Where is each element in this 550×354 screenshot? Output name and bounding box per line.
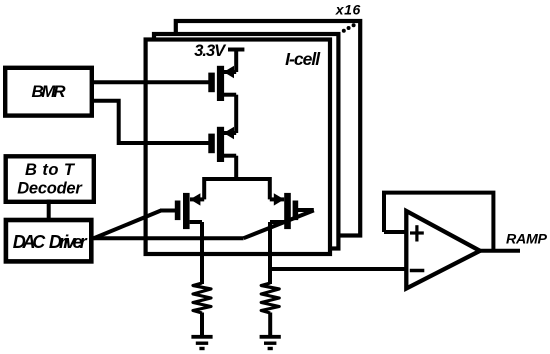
transistor M3 (left NMOS of pair): [175, 193, 204, 229]
feedback wire from op-amp + input to output: [384, 193, 493, 251]
op-amp + input sign: [410, 225, 424, 241]
wire R2 to ground: [268, 313, 272, 336]
wire M1 drain to M2 source: [234, 95, 238, 133]
svg-text:BMR: BMR: [32, 82, 67, 101]
wire 3.3V to M1 source: [234, 50, 238, 73]
svg-text:DAC: DAC: [13, 232, 47, 252]
transistor M4 (right NMOS of pair): [270, 193, 298, 229]
wire M2 drain to diff-pair bar: [234, 156, 238, 179]
wire decoder to DAC driver: [47, 200, 51, 223]
block B to T Decoder: [6, 156, 94, 202]
block DAC Driver: [6, 220, 91, 261]
I-cell box (front): [146, 40, 330, 255]
wire M4 gate lead: [298, 208, 314, 212]
wire to op-amp + input: [384, 230, 406, 234]
wire BMR to M2 gate: [92, 101, 209, 143]
ellipsis dots between stacked boxes: [342, 23, 356, 33]
op-amp - input sign: [410, 269, 425, 273]
svg-text:3.3V: 3.3V: [194, 42, 227, 60]
block BMR: [5, 68, 92, 116]
3.3V supply bar: [228, 48, 244, 52]
svg-text:x16: x16: [335, 1, 361, 17]
op-amp U1: [406, 211, 480, 289]
wire M3 source down to R1: [200, 222, 204, 284]
wire M4 source down to R2: [268, 222, 272, 284]
wire op-amp output RAMP: [478, 249, 520, 253]
ground (left): [191, 335, 212, 350]
svg-text:RAMP: RAMP: [506, 232, 548, 248]
wire DAC driver to M3 gate (diagonal): [94, 211, 162, 239]
svg-text:I-cell: I-cell: [285, 49, 321, 69]
wire M3 gate lead: [160, 209, 176, 213]
resistor R1: [193, 283, 211, 313]
I-cell stacked box (middle): [154, 34, 338, 249]
diff-pair top bar: [204, 179, 270, 199]
wire BMR to M1 gate: [92, 80, 209, 84]
transistor M2 (cascode PMOS): [208, 127, 236, 162]
svg-text:B to T: B to T: [25, 161, 76, 179]
wire DAC driver to M4 gate (horizontal + diagonal): [94, 236, 244, 240]
resistor R2: [261, 283, 279, 313]
wire M4 source node to op-amp inverting input: [270, 267, 406, 271]
ground (right): [260, 335, 281, 350]
svg-text:Decoder: Decoder: [17, 180, 83, 198]
transistor M1 (top PMOS): [208, 66, 236, 101]
I-cell stacked box (back): [176, 21, 360, 236]
wire R1 to ground: [200, 313, 204, 336]
svg-text:Driver: Driver: [49, 232, 88, 252]
